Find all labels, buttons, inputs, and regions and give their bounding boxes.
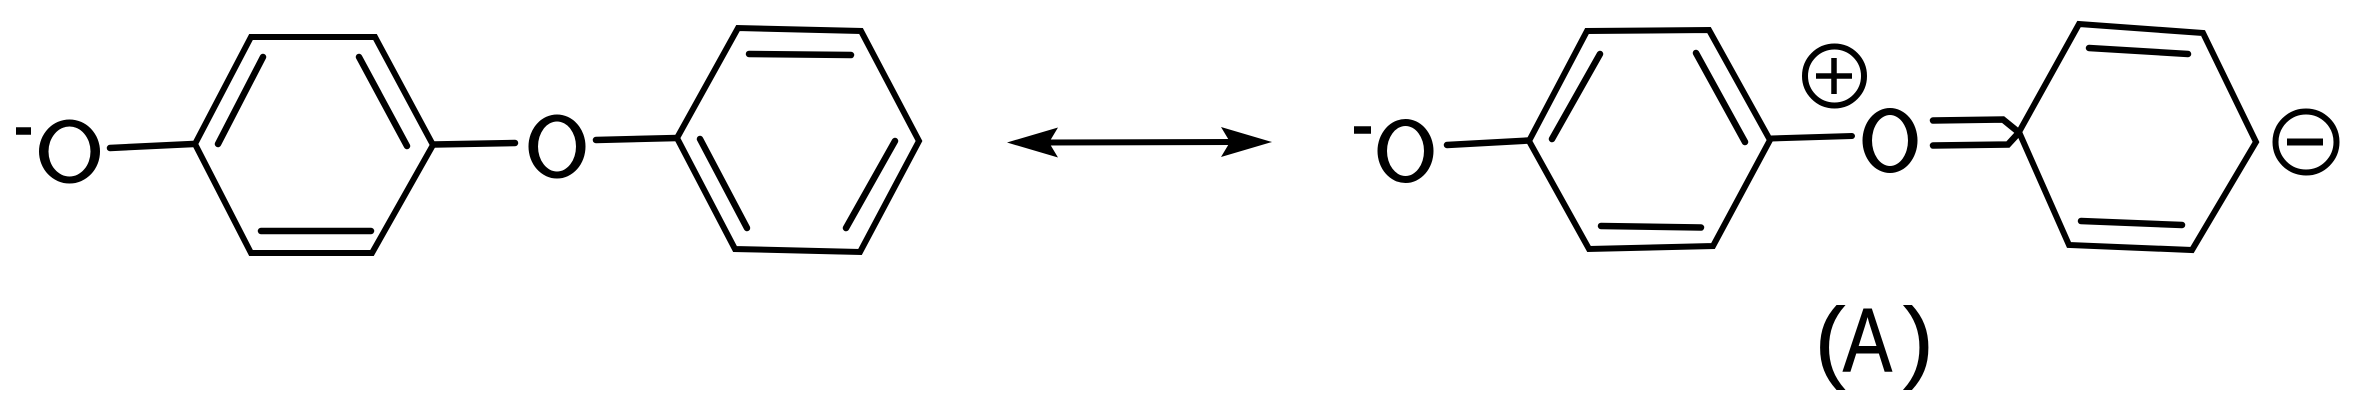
phenolate oxygen O (right structure)	[1378, 119, 1434, 183]
double bond inner line, ring 1 upper-left	[218, 57, 263, 144]
svg-text:A: A	[1843, 291, 1892, 391]
bond ether O to ring 2	[596, 138, 677, 140]
bond ring 3 to oxocarbenium O	[1771, 136, 1852, 139]
double bond inner line, ring 4 bottom	[2081, 221, 2182, 225]
bond O to ring 1	[110, 144, 193, 148]
double bond O to ring 4, upper line	[1933, 120, 2019, 133]
double bond inner line, ring 2 lower-right	[846, 141, 895, 228]
phenolate oxygen O (left structure)	[39, 120, 100, 184]
double bond inner line, ring 3 bottom	[1601, 226, 1701, 228]
double bond inner line, ring 1 upper-right	[359, 57, 407, 146]
svg-text:(: (	[1815, 291, 1845, 391]
double bond inner line, ring 2 lower-left	[700, 139, 747, 228]
double bond inner line, ring 2 top	[749, 54, 851, 55]
double bond O to ring 4, lower line	[1933, 133, 2019, 146]
bond ring 1 to ether O	[434, 143, 515, 145]
bond O to ring 3	[1447, 141, 1529, 146]
double bond inner line, ring 3 upper-left	[1552, 54, 1600, 139]
cyclohexadiene ring 4 (right structure, right ring)	[2019, 24, 2256, 250]
svg-text:): )	[1904, 291, 1934, 391]
benzene ring 1 (left structure, left ring)	[195, 37, 433, 253]
double bond inner line, ring 3 upper-right	[1696, 53, 1745, 142]
oxocarbenium oxygen O+ (right structure)	[1863, 108, 1918, 173]
benzene ring 3 (right structure, left ring)	[1529, 30, 1770, 249]
double bond inner line, ring 4 top	[2089, 48, 2188, 54]
benzene ring 2 (left structure, right ring)	[677, 28, 919, 252]
minus charge symbol (circled -) on ring 4	[2276, 112, 2337, 173]
plus charge symbol (circled +)	[1805, 47, 1864, 106]
double bond inner line, ring 1 bottom	[261, 228, 371, 235]
resonance double-headed arrow	[1007, 127, 1272, 158]
minus charge on left phenolate O	[16, 127, 31, 135]
label (A)	[1815, 291, 1933, 391]
minus charge on right phenolate O	[1354, 126, 1371, 134]
ether oxygen O (left structure, center)	[529, 115, 586, 179]
